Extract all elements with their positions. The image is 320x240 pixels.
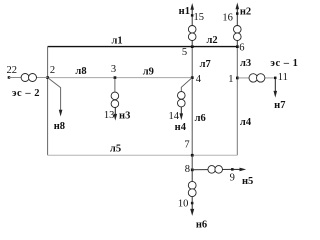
transformer T10 branch wire: [191, 170, 193, 182]
load н2 arrow: [236, 3, 252, 18]
node 10: [178, 197, 194, 210]
svg-text:10: 10: [178, 198, 189, 209]
transformer T16: [234, 26, 242, 41]
load н5 arrow: [232, 168, 253, 187]
svg-text:7: 7: [184, 140, 189, 151]
svg-text:3: 3: [111, 64, 116, 75]
node 2: [46, 65, 55, 79]
svg-text:1: 1: [228, 74, 233, 85]
svg-text:эс – 1: эс – 1: [270, 58, 298, 69]
node 9: [230, 168, 235, 183]
wire node7-node8: [191, 155, 193, 170]
wire л6 (inner vertical node4-node7): [192, 78, 206, 156]
transformer T16 branch wire: [236, 14, 238, 47]
node 4: [191, 74, 202, 85]
transformer T13: [111, 92, 119, 107]
wire left vertical (node2 feeder): [47, 47, 49, 156]
svg-text:л4: л4: [240, 117, 252, 128]
svg-text:н1: н1: [179, 6, 190, 17]
load н8 arrow from node 2: [48, 78, 65, 132]
transformer T9: [208, 166, 223, 174]
svg-text:11: 11: [278, 72, 288, 83]
svg-text:16: 16: [222, 12, 233, 23]
svg-text:н2: н2: [240, 7, 251, 18]
node 8: [185, 164, 194, 175]
transformer T22 (эс-2): [21, 74, 36, 82]
load н1 arrow: [179, 3, 194, 17]
svg-text:л2: л2: [207, 35, 218, 46]
transformer T10: [188, 181, 196, 196]
node 7: [184, 140, 193, 157]
svg-text:н7: н7: [274, 100, 285, 111]
svg-text:8: 8: [185, 164, 190, 175]
load н4 arrow: [175, 107, 187, 133]
transformer T14 branch wire (slant from node 4): [181, 78, 192, 92]
transformer T13 branch wire: [114, 78, 116, 93]
node 13 label: [104, 110, 115, 121]
svg-text:л5: л5: [110, 144, 121, 155]
transformer T15: [188, 26, 196, 41]
svg-text:н4: н4: [175, 122, 187, 133]
svg-text:2: 2: [50, 65, 55, 76]
svg-text:л8: л8: [75, 66, 86, 77]
wire л8 (middle line node2-node3): [48, 66, 115, 78]
wire л1 (top line left segment): [48, 36, 193, 47]
load н6 arrow: [190, 203, 207, 230]
svg-text:5: 5: [182, 47, 187, 58]
svg-text:л1: л1: [112, 36, 123, 47]
wire 8-9: [192, 168, 232, 170]
svg-text:эс – 2: эс – 2: [12, 88, 40, 99]
wire л5 (bottom line): [48, 144, 193, 156]
load н3 arrow: [114, 108, 131, 122]
svg-text:н3: н3: [119, 111, 130, 122]
node 3: [111, 64, 116, 79]
wire 1-11: [237, 77, 275, 79]
load н7 arrow: [274, 78, 286, 111]
svg-text:15: 15: [193, 12, 204, 23]
node 11: [274, 72, 288, 83]
svg-text:н5: н5: [242, 176, 253, 187]
svg-text:22: 22: [6, 65, 17, 76]
svg-text:л7: л7: [200, 59, 211, 70]
node 16: [222, 12, 238, 23]
svg-text:9: 9: [230, 172, 235, 183]
svg-text:13: 13: [104, 110, 115, 121]
svg-text:л9: л9: [143, 66, 154, 77]
svg-text:6: 6: [239, 43, 244, 54]
node 1: [228, 74, 238, 85]
transformer T14: [178, 92, 186, 107]
svg-text:н8: н8: [54, 121, 65, 132]
wire л3 (right vertical node6-node1): [237, 47, 251, 78]
node 14 label: [168, 111, 179, 122]
transformer T11 (эс-1): [249, 74, 265, 82]
svg-text:н6: н6: [196, 219, 207, 228]
node 6: [236, 43, 245, 54]
svg-text:14: 14: [168, 111, 179, 122]
wire 22-2: [9, 77, 48, 79]
transformer T15 branch wire: [191, 15, 193, 46]
wire л9 (middle line node3-node4): [115, 66, 192, 77]
svg-text:л3: л3: [240, 58, 251, 69]
power system эс-1: [270, 58, 298, 69]
wire л2 (top line node5-node6): [192, 35, 237, 47]
wire л4 (right vertical node1-corner, then to node7): [192, 78, 252, 155]
wire л7 (inner vertical node5-node4): [192, 47, 211, 78]
svg-text:л6: л6: [195, 113, 206, 124]
node 15: [191, 12, 204, 23]
svg-text:4: 4: [196, 74, 202, 85]
node 5: [182, 45, 194, 58]
power system эс-2: [12, 88, 40, 99]
node 22: [6, 65, 17, 79]
